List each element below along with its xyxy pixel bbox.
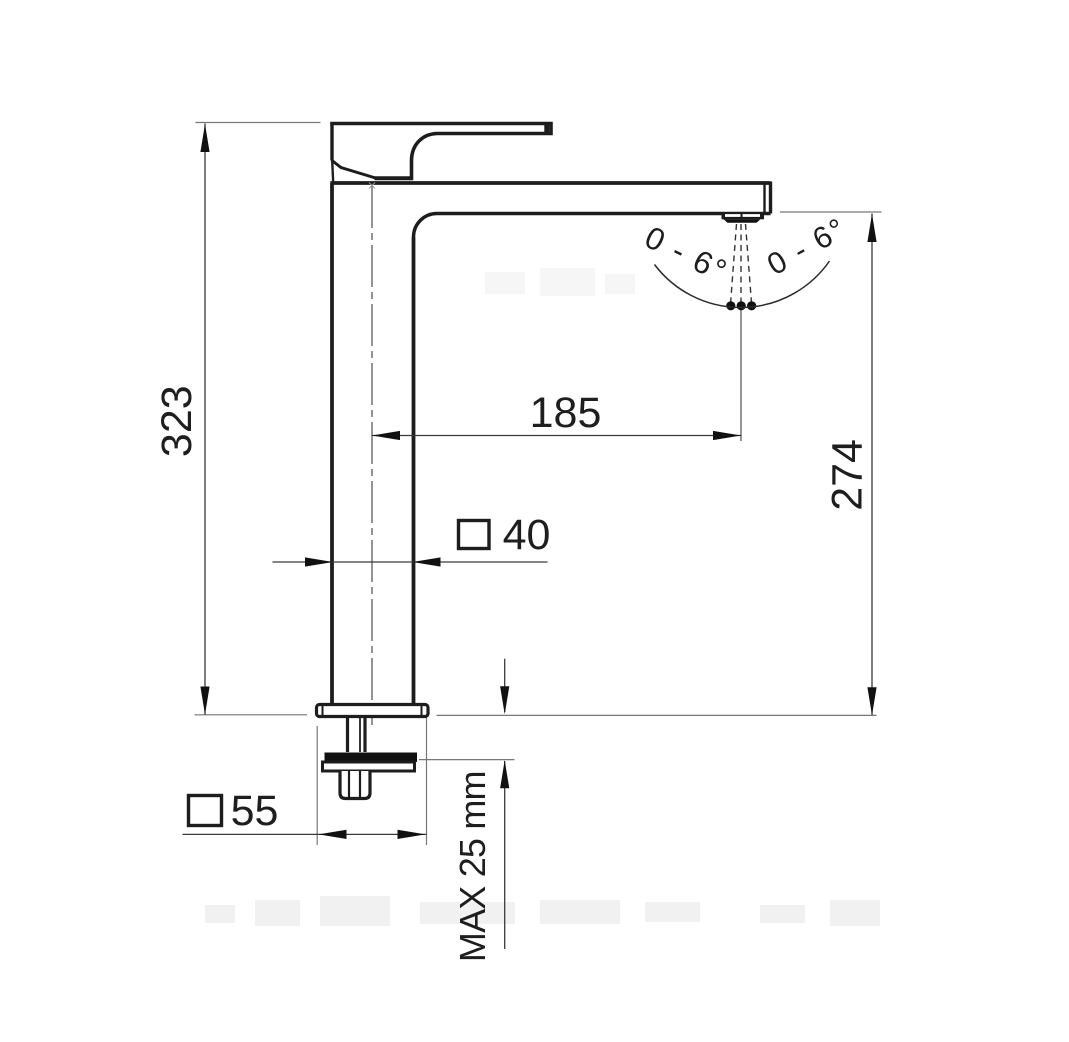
spout arm bottom edge (437, 212, 771, 215)
base plate left tick (322, 705, 324, 716)
spout arm top edge (330, 181, 770, 185)
dim 40 arrow pointing left (413, 557, 441, 566)
svg-text:323: 323 (153, 385, 201, 457)
dim max25 lower line (504, 761, 506, 949)
metal washer (323, 762, 415, 771)
swivel arc (655, 261, 830, 307)
dim 323 top extension line (196, 122, 321, 124)
dim max25 arrow down (500, 686, 509, 714)
handle base left slant (332, 161, 376, 179)
mounting nut (340, 771, 370, 799)
dim 274 top extension line (780, 211, 882, 213)
dim 55 left extension line (316, 726, 318, 845)
rubber washer (black) (325, 753, 418, 763)
svg-text:MAX 25 mm: MAX 25 mm (452, 771, 493, 962)
dim 323 arrow up (200, 124, 209, 152)
nut inner line 1 (348, 771, 350, 797)
svg-text:40: 40 (503, 511, 551, 559)
dim 55 arrow pointing right (398, 830, 426, 839)
svg-text:55: 55 (231, 787, 279, 835)
lever handle top outline (332, 124, 551, 179)
washer top extension line (419, 759, 515, 761)
stream dots (726, 301, 735, 310)
dim 55 arrow pointing left (319, 830, 347, 839)
mounting surface extension line (437, 714, 877, 716)
water stream dashed lines (731, 224, 752, 303)
square symbol 55 (189, 796, 222, 826)
stream centre extension line (740, 303, 742, 441)
aerator (722, 214, 765, 223)
spout end outer edge (769, 182, 772, 214)
dim 323 arrow down (200, 687, 209, 715)
handle base bottom line (375, 176, 412, 180)
nut inner line 2 (359, 771, 361, 797)
square symbol 40 (459, 521, 490, 549)
dim 40 line (273, 561, 548, 563)
dim 274 line (871, 214, 873, 716)
dim 274 arrow down (867, 687, 876, 715)
dim 40 arrow pointing right (305, 557, 333, 566)
column right edge (412, 237, 416, 705)
dim max25 upper line (504, 659, 506, 712)
centerline top marker (369, 183, 375, 189)
dim 323 line (204, 124, 206, 715)
lever end cap tick (544, 124, 549, 134)
base plate right tick (421, 705, 423, 716)
dim 185 arrow right (713, 431, 741, 440)
handle base left drop (332, 161, 333, 184)
dim 274 arrow up (867, 214, 876, 242)
centerline (371, 186, 373, 725)
svg-text:274: 274 (824, 439, 872, 511)
dim 55 right extension line (426, 718, 428, 845)
dim 185 line (372, 435, 741, 437)
base plate (317, 705, 429, 717)
column left edge (330, 183, 334, 705)
dim 185 arrow left (372, 431, 400, 440)
dim 323 bottom extension line (195, 714, 308, 716)
inner corner radius (414, 214, 438, 238)
threaded shank (348, 717, 366, 753)
dim max25 arrow up (500, 760, 509, 788)
dim 55 line (183, 833, 427, 835)
svg-text:185: 185 (530, 389, 602, 437)
spout end inner line (763, 183, 765, 213)
handle left edge (330, 124, 333, 161)
faint scan artifacts (205, 268, 880, 926)
